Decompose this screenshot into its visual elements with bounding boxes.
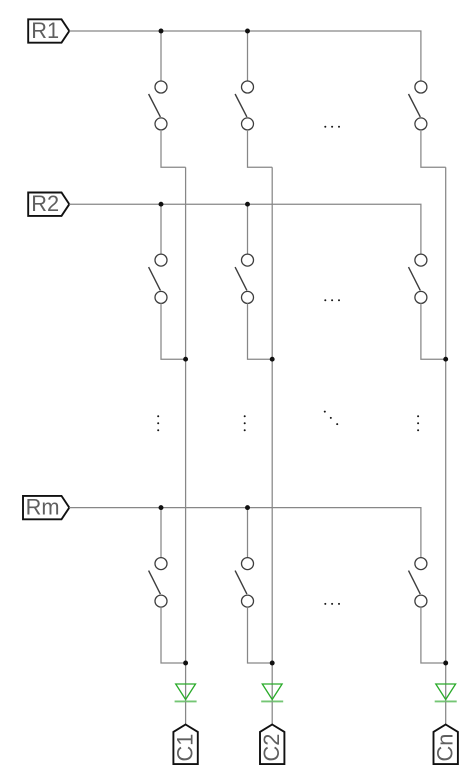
junction R1/C1 tap <box>159 29 164 34</box>
junction R2/C1 tap <box>159 202 164 207</box>
wire row Rm <box>69 508 421 558</box>
svg-text:R2: R2 <box>31 191 59 216</box>
switch SW row R2 col C2 <box>235 204 253 303</box>
net flag R1 <box>28 18 69 43</box>
ellipsis rows col C2 <box>244 415 246 431</box>
net flag Rm <box>23 495 69 520</box>
junction bus C1 row Rm <box>183 661 188 666</box>
junction Rm/C1 tap <box>159 505 164 510</box>
ellipsis rows col C1 <box>157 415 159 431</box>
switch SW row R2 col C1 <box>149 204 167 303</box>
ellipsis diagonal <box>324 411 338 426</box>
wire switch output R2/C1 <box>161 303 186 359</box>
wire switch output R1/Cn <box>421 130 446 167</box>
svg-text:R1: R1 <box>31 18 59 43</box>
junction Rm/C2 tap <box>245 505 250 510</box>
diode D C2 <box>261 684 283 701</box>
ellipsis columns row R2 <box>324 299 340 301</box>
switch SW row R1 col Cn <box>409 81 427 130</box>
diode D C1 <box>175 684 197 701</box>
wire column bus Cn <box>445 167 447 684</box>
wire switch output Rm/C2 <box>248 607 273 663</box>
ellipsis rows col Cn <box>417 415 419 431</box>
switch SW row Rm col Cn <box>409 558 427 608</box>
switch SW row R1 col C2 <box>235 31 253 130</box>
svg-text:C1: C1 <box>173 734 198 762</box>
diode D Cn <box>435 684 457 701</box>
junction bus C2 row R2 <box>270 357 275 362</box>
junction bus Cn row R2 <box>443 357 448 362</box>
net flag Cn <box>433 725 458 765</box>
wire diode to flag C1 <box>185 702 187 725</box>
switch SW row Rm col C1 <box>149 508 167 607</box>
wire switch output R1/C2 <box>248 130 273 167</box>
wire switch output R2/C2 <box>248 303 273 359</box>
wire switch output Rm/Cn <box>421 607 446 663</box>
ellipsis columns row R1 <box>324 126 340 128</box>
ellipsis columns row Rm <box>324 603 340 605</box>
wire column bus C2 <box>271 167 273 684</box>
svg-text:C2: C2 <box>259 734 284 762</box>
switch SW row R2 col Cn <box>409 254 427 303</box>
net flag C2 <box>259 725 284 765</box>
svg-text:Rm: Rm <box>26 495 60 520</box>
wire row R1 <box>69 31 421 81</box>
wire diode to flag C2 <box>271 702 273 725</box>
wire row R2 <box>69 204 421 254</box>
wire diode to flag Cn <box>445 702 447 725</box>
switch SW row R1 col C1 <box>149 31 167 130</box>
junction R2/C2 tap <box>245 202 250 207</box>
junction R1/C2 tap <box>245 29 250 34</box>
svg-text:Cn: Cn <box>433 734 458 762</box>
wire switch output Rm/C1 <box>161 607 186 663</box>
wire column bus C1 <box>185 167 187 684</box>
junction bus Cn row Rm <box>443 661 448 666</box>
wire switch output R1/C1 <box>161 130 186 167</box>
switch SW row Rm col C2 <box>235 508 253 607</box>
junction bus C2 row Rm <box>270 661 275 666</box>
net flag C1 <box>173 725 198 765</box>
wire switch output R2/Cn <box>421 303 446 359</box>
junction bus C1 row R2 <box>183 357 188 362</box>
net flag R2 <box>28 191 69 216</box>
